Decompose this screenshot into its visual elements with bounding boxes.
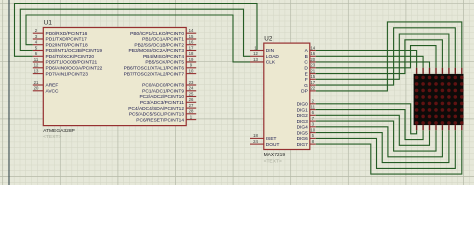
svg-text:24: 24 (189, 86, 194, 91)
svg-text:14: 14 (189, 28, 194, 33)
svg-text:DIG3: DIG3 (297, 119, 309, 125)
svg-text:PD0/RXD/PCINT16: PD0/RXD/PCINT16 (46, 31, 88, 37)
svg-text:PD1/TXD/PCINT17: PD1/TXD/PCINT17 (46, 37, 88, 43)
svg-text:12: 12 (34, 63, 39, 68)
svg-text:13: 13 (34, 68, 39, 73)
svg-text:PD3/INT1/OC2B/PCINT19: PD3/INT1/OC2B/PCINT19 (46, 48, 103, 54)
svg-text:16: 16 (189, 40, 194, 45)
svg-text:25: 25 (189, 91, 194, 96)
svg-text:MAX7219: MAX7219 (264, 152, 286, 158)
svg-text:PB5/SCK/PCINT5: PB5/SCK/PCINT5 (145, 60, 184, 66)
svg-text:23: 23 (310, 63, 315, 68)
svg-text:13: 13 (253, 57, 258, 62)
svg-text:15: 15 (189, 34, 194, 39)
svg-text:PC1/ADC1/PCINT9: PC1/ADC1/PCINT9 (142, 89, 184, 95)
svg-text:PD4/T0/XCK/PCINT20: PD4/T0/XCK/PCINT20 (46, 54, 95, 60)
svg-text:PC0/ADC0/PCINT8: PC0/ADC0/PCINT8 (142, 83, 184, 89)
svg-text:24: 24 (253, 139, 258, 144)
svg-text:22: 22 (310, 86, 315, 91)
svg-text:DIG6: DIG6 (297, 136, 309, 142)
svg-text:<TEXT>: <TEXT> (264, 158, 282, 164)
svg-text:11: 11 (34, 57, 39, 62)
svg-text:28: 28 (189, 109, 194, 114)
svg-text:PC4/ADC4/SDA/PCINT12: PC4/ADC4/SDA/PCINT12 (128, 106, 184, 112)
svg-text:17: 17 (189, 45, 194, 50)
svg-text:DIN: DIN (266, 48, 275, 54)
svg-text:21: 21 (310, 68, 315, 73)
svg-text:PB1/OC1A/PCINT1: PB1/OC1A/PCINT1 (142, 37, 184, 43)
svg-text:10: 10 (310, 127, 315, 132)
svg-text:18: 18 (189, 51, 194, 56)
svg-text:PD5/T1/OC0B/PCINT21: PD5/T1/OC0B/PCINT21 (46, 60, 98, 66)
svg-text:ATMEGA328P: ATMEGA328P (43, 128, 75, 134)
svg-text:PB4/MISO/PCINT4: PB4/MISO/PCINT4 (143, 54, 184, 60)
svg-text:DIG0: DIG0 (297, 102, 309, 108)
svg-text:DP: DP (301, 89, 308, 95)
svg-text:PD2/INT0/PCINT18: PD2/INT0/PCINT18 (46, 42, 88, 48)
svg-text:15: 15 (310, 74, 315, 79)
svg-text:F: F (305, 77, 308, 83)
svg-text:10: 10 (189, 68, 194, 73)
svg-text:<TEXT>: <TEXT> (43, 134, 61, 140)
svg-text:PC3/ADC3/PCINT11: PC3/ADC3/PCINT11 (140, 100, 184, 106)
svg-text:DIG7: DIG7 (297, 142, 309, 148)
svg-text:26: 26 (189, 97, 194, 102)
svg-text:DIG5: DIG5 (297, 130, 309, 136)
svg-text:DIG1: DIG1 (297, 107, 309, 113)
svg-text:12: 12 (253, 51, 258, 56)
svg-text:11: 11 (311, 104, 316, 109)
svg-text:PD6/AIN0/OC0A/PCINT22: PD6/AIN0/OC0A/PCINT22 (46, 66, 103, 72)
svg-text:17: 17 (310, 80, 315, 85)
svg-text:PC2/ADC2/PCINT10: PC2/ADC2/PCINT10 (139, 94, 184, 100)
svg-text:14: 14 (310, 45, 315, 50)
svg-text:U1: U1 (44, 20, 53, 27)
svg-text:DIG2: DIG2 (297, 113, 309, 119)
svg-text:PC5/ADC5/SCL/PCINT13: PC5/ADC5/SCL/PCINT13 (129, 112, 185, 118)
svg-text:U2: U2 (264, 35, 273, 42)
svg-text:B: B (305, 54, 308, 60)
svg-text:23: 23 (189, 80, 194, 85)
svg-text:LOAD: LOAD (266, 54, 280, 60)
svg-text:CLK: CLK (266, 60, 276, 66)
svg-text:PB6/TOSC1/XTAL1/PCINT6: PB6/TOSC1/XTAL1/PCINT6 (124, 66, 185, 72)
svg-text:ISET: ISET (266, 136, 277, 142)
svg-text:PD7/AIN1/PCINT23: PD7/AIN1/PCINT23 (46, 71, 89, 77)
svg-text:16: 16 (310, 51, 315, 56)
svg-text:E: E (305, 71, 308, 77)
svg-text:DIG4: DIG4 (297, 125, 309, 131)
svg-text:20: 20 (34, 86, 39, 91)
svg-text:PB3/MOSI/OC2A/PCINT3: PB3/MOSI/OC2A/PCINT3 (129, 48, 185, 54)
svg-text:PB0/ICP1/CLKO/PCINT0: PB0/ICP1/CLKO/PCINT0 (130, 31, 184, 37)
svg-text:G: G (304, 83, 308, 89)
svg-text:20: 20 (310, 57, 315, 62)
svg-text:D: D (304, 66, 308, 72)
svg-text:19: 19 (189, 57, 194, 62)
svg-text:18: 18 (253, 133, 258, 138)
svg-text:C: C (304, 60, 308, 66)
svg-text:AVCC: AVCC (46, 89, 60, 95)
svg-text:PB2/SS/OC1B/PCINT2: PB2/SS/OC1B/PCINT2 (134, 42, 184, 48)
svg-text:PB7/TOSC2/XTAL2/PCINT7: PB7/TOSC2/XTAL2/PCINT7 (124, 71, 185, 77)
svg-text:21: 21 (34, 80, 39, 85)
svg-text:DOUT: DOUT (266, 142, 280, 148)
svg-text:27: 27 (189, 103, 194, 108)
svg-text:AREF: AREF (46, 83, 59, 89)
svg-text:PC6/RESET/PCINT14: PC6/RESET/PCINT14 (136, 117, 184, 123)
